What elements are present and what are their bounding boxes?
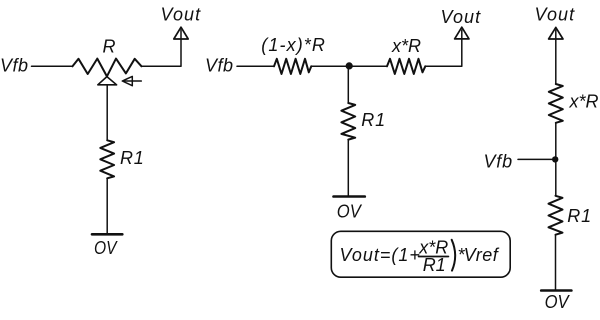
svg-text:Vfb: Vfb	[484, 152, 513, 172]
power arrow Vout (right circuit)	[549, 27, 563, 39]
wire resistor (1-x)*R to resistor x*R through node (middle circuit)	[311, 65, 387, 67]
ground bar 0V (middle circuit)	[334, 195, 365, 198]
power arrow Vout (middle circuit)	[455, 27, 469, 39]
svg-text:x*R: x*R	[569, 92, 599, 112]
svg-text:R1: R1	[361, 110, 386, 130]
wire R1 to ground (middle circuit)	[347, 140, 349, 197]
wire Vfb label to node (right circuit)	[518, 158, 553, 160]
resistor R1 (left circuit)	[100, 140, 114, 178]
svg-text:R1: R1	[423, 255, 446, 275]
resistor x*R (middle circuit)	[387, 59, 425, 74]
potentiometer R body (left circuit)	[73, 59, 142, 77]
wire potentiometer to Vout corner (left circuit)	[142, 30, 182, 66]
svg-text:R: R	[103, 37, 116, 57]
svg-text:(1-x)*R: (1-x)*R	[261, 35, 326, 55]
svg-text:OV: OV	[337, 202, 363, 222]
potentiometer R wiper triangle	[98, 77, 117, 85]
wire Vout arrow to resistor x*R (right circuit)	[555, 30, 557, 84]
svg-text:Vout: Vout	[535, 5, 576, 25]
ground bar 0V (right circuit)	[541, 289, 571, 292]
svg-text:Vout: Vout	[161, 5, 202, 25]
wire R1 to ground (right circuit)	[555, 235, 557, 291]
ground bar 0V (left circuit)	[92, 233, 122, 236]
svg-text:Vout: Vout	[441, 7, 482, 27]
svg-text:R1: R1	[120, 148, 145, 168]
svg-text:OV: OV	[94, 238, 118, 258]
wire resistor x*R to Vout corner (middle circuit)	[425, 30, 462, 66]
svg-text:x*R: x*R	[391, 36, 421, 56]
wire R1 to ground (left circuit)	[106, 178, 108, 234]
svg-text:Vfb: Vfb	[0, 56, 29, 76]
wire wiper to resistor R1 (left circuit)	[106, 85, 108, 141]
potentiometer R wiper adjustment arrow	[122, 76, 141, 85]
power arrow Vout (left circuit)	[174, 27, 188, 39]
junction node Vfb divider tap (middle circuit)	[346, 62, 353, 69]
svg-text:Vref: Vref	[464, 245, 500, 265]
svg-text:Vout=(1+: Vout=(1+	[340, 245, 421, 265]
resistor x*R (right circuit)	[549, 84, 563, 123]
junction node Vfb (right circuit)	[552, 156, 558, 162]
svg-text:OV: OV	[545, 292, 571, 312]
wire resistor x*R to node Vfb (right circuit)	[555, 123, 557, 196]
wire Vfb to potentiometer R (left circuit)	[32, 65, 73, 67]
formula text Vout=(1+x*R/R1)*Vref	[340, 238, 500, 276]
wire Vfb to resistor (1-x)*R (middle circuit)	[237, 65, 274, 67]
wire node to resistor R1 (middle circuit)	[347, 66, 349, 103]
resistor (1-x)*R (middle circuit)	[274, 59, 311, 74]
formula box border	[331, 231, 510, 277]
resistor R1 (right circuit)	[549, 196, 563, 235]
svg-text:Vfb: Vfb	[205, 56, 234, 76]
resistor R1 (middle circuit)	[341, 103, 355, 140]
svg-text:R1: R1	[567, 206, 592, 226]
